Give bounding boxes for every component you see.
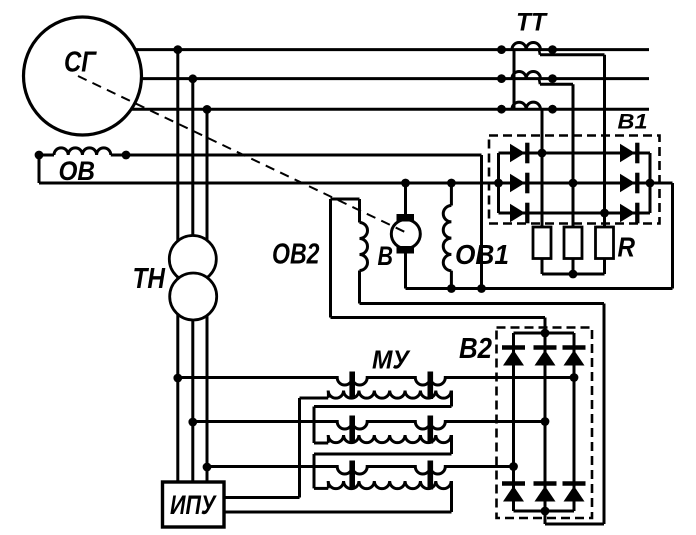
svg-text:В1: В1 [618, 111, 648, 134]
svg-text:ТН: ТН [133, 263, 166, 295]
svg-text:В: В [378, 241, 394, 271]
svg-text:R: R [618, 232, 636, 263]
svg-text:В2: В2 [459, 333, 492, 365]
svg-text:ОВ1: ОВ1 [455, 239, 509, 270]
svg-text:ОВ: ОВ [59, 156, 96, 186]
svg-text:МУ: МУ [372, 345, 411, 375]
svg-text:ТТ: ТТ [516, 9, 549, 37]
svg-text:ОВ2: ОВ2 [272, 239, 320, 271]
svg-text:СГ: СГ [64, 47, 97, 79]
svg-text:ИПУ: ИПУ [170, 490, 217, 520]
